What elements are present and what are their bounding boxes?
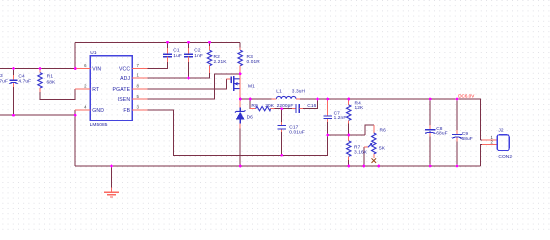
node C17-FB: [280, 154, 283, 157]
node R4-R7: [347, 134, 350, 137]
node gnd-symbol: [110, 165, 113, 168]
wire ground rail: [75, 165, 480, 167]
svg-text:2.21K: 2.21K: [214, 59, 228, 65]
svg-text:R6: R6: [380, 127, 387, 133]
svg-text:C2: C2: [194, 47, 201, 53]
wire C9 column: [456, 99, 458, 166]
wire R4 bottom: [348, 124, 350, 136]
wire R9 to C16: [275, 108, 296, 110]
svg-text:-68uF: -68uF: [435, 131, 448, 137]
node C8-gnd: [429, 165, 432, 168]
svg-text:VIN: VIN: [92, 66, 101, 72]
pin PGATE 8: [132, 88, 147, 90]
node C4-top: [12, 67, 15, 70]
op-amp U1 LM5085 box: [90, 56, 132, 121]
resistor R3: [238, 42, 260, 74]
capacitor C8: [425, 125, 448, 137]
wire riser to top rail: [74, 42, 76, 68]
wire switch node: [240, 98, 271, 100]
wire C2 to ADJ: [188, 62, 190, 78]
node C1-top: [166, 41, 169, 44]
node C8-top: [429, 98, 432, 101]
svg-text:4.7uF: 4.7uF: [18, 79, 31, 85]
svg-text:1nF: 1nF: [194, 53, 203, 59]
svg-text:12K: 12K: [355, 105, 365, 111]
wire C7 bottom: [327, 122, 329, 135]
potentiometer R6: [364, 125, 386, 158]
node C17-R9: [280, 107, 283, 110]
node C16-out: [316, 98, 319, 101]
svg-text:3.16K: 3.16K: [354, 149, 368, 155]
resistor R9: [250, 103, 275, 111]
node R3-M1: [239, 72, 242, 75]
svg-text:1.2nF: 1.2nF: [334, 115, 347, 121]
svg-text:CON2: CON2: [498, 154, 512, 160]
inductor L1: [272, 88, 306, 99]
node VIN-riser: [74, 67, 77, 70]
wire input rail: [0, 68, 75, 70]
wire R9 tap: [250, 99, 255, 109]
resistor R4: [347, 99, 365, 124]
svg-text:ISEN: ISEN: [118, 97, 131, 103]
node C4-bottom: [12, 114, 15, 117]
svg-text:4.7uF: 4.7uF: [0, 78, 8, 84]
wire divider node: [328, 134, 365, 136]
svg-text:5K: 5K: [379, 145, 386, 151]
svg-text:FB: FB: [123, 108, 130, 114]
wire hook to R6 top: [365, 125, 374, 135]
wire ISEN net: [148, 74, 241, 99]
wire CON2 pin1: [480, 139, 482, 141]
pin VCC 7: [132, 68, 147, 70]
svg-text:R1: R1: [47, 73, 54, 79]
node R1-top: [39, 67, 42, 70]
wire gnd symbol drop: [111, 166, 113, 188]
svg-text:0.01uF: 0.01uF: [289, 129, 305, 135]
svg-text:20K: 20K: [265, 103, 275, 109]
node R9-tap: [249, 98, 252, 101]
svg-text:U1: U1: [90, 50, 97, 56]
svg-text:R9: R9: [251, 103, 258, 109]
pin FB 3: [132, 109, 147, 111]
svg-text:3.3uH: 3.3uH: [292, 88, 306, 94]
pin RT 2: [75, 88, 90, 90]
wire VCC to C1: [148, 62, 168, 69]
pin GND 4: [75, 109, 90, 111]
ground symbol: [104, 188, 119, 198]
svg-text:ADJ: ADJ: [120, 76, 130, 82]
svg-text:L1: L1: [276, 88, 282, 94]
svg-text:1uF: 1uF: [173, 53, 182, 59]
capacitor C16: [277, 103, 317, 113]
svg-text:C1: C1: [173, 47, 180, 53]
capacitor C17: [277, 122, 304, 135]
node C2-ADJ: [187, 77, 190, 80]
capacitor C1: [163, 42, 182, 62]
svg-text:0.01R: 0.01R: [247, 59, 261, 65]
svg-text:DC6.0V: DC6.0V: [458, 93, 475, 98]
capacitor C9: [452, 130, 473, 142]
node stray-gnd: [377, 165, 380, 168]
svg-text:D6: D6: [247, 114, 254, 120]
pin ISEN 5: [132, 98, 147, 100]
wire C8 column: [429, 99, 431, 166]
wire top rail: [75, 41, 240, 43]
svg-text:LM5085: LM5085: [90, 122, 108, 128]
wire bottom-left rail: [0, 110, 75, 115]
wire R6 wiper to ground: [363, 147, 365, 166]
capacitor C4: [9, 74, 31, 87]
svg-text:J2: J2: [498, 127, 503, 133]
svg-text:68K: 68K: [47, 80, 57, 86]
node R2-top: [208, 41, 211, 44]
svg-text:VCC: VCC: [119, 66, 130, 72]
node C9-top: [456, 98, 459, 101]
pin ADJ 1: [132, 77, 147, 79]
svg-text:2200pF: 2200pF: [277, 103, 294, 109]
wire C17 bottom: [281, 132, 283, 155]
wire D6 anode to ground: [239, 129, 241, 167]
capacitor C7: [323, 99, 346, 122]
wire C16 right riser: [303, 99, 318, 109]
connector J2 CON2: [482, 127, 512, 160]
wire CON2 pin2 riser: [480, 144, 482, 166]
node R7-gnd: [347, 165, 350, 168]
svg-text:C3: C3: [0, 73, 3, 79]
node C2-top: [187, 41, 190, 44]
svg-text:-68uF: -68uF: [460, 136, 473, 142]
wire R7 bottom: [348, 160, 350, 166]
resistor R7: [347, 135, 368, 160]
pin VIN 6: [75, 68, 90, 70]
svg-text:PGATE: PGATE: [113, 87, 131, 93]
node C9-gnd: [456, 165, 459, 168]
node R4-top: [347, 98, 350, 101]
svg-text:C16: C16: [307, 103, 316, 109]
diode D6 (schottky): [235, 100, 253, 129]
wire FB net: [148, 110, 328, 155]
wire PGATE net: [148, 79, 227, 89]
resistor R2: [207, 42, 227, 73]
svg-text:RT: RT: [92, 87, 99, 93]
resistor R1: [38, 69, 56, 93]
transistor M1 (P-MOSFET): [226, 74, 255, 99]
node wiper-gnd: [362, 165, 365, 168]
svg-text:M1: M1: [248, 84, 255, 90]
wire output rail: [300, 99, 480, 140]
node C7-divider: [326, 134, 329, 137]
wire ADJ rail: [148, 73, 210, 78]
node D6-gnd: [239, 165, 242, 168]
wire C17 top: [281, 109, 283, 122]
wire RT net: [40, 89, 75, 100]
no-connect X on R6 bottom: [372, 158, 377, 163]
node GND-pin: [74, 114, 77, 117]
node C7-top: [326, 98, 329, 101]
wire gnd feed: [74, 115, 76, 166]
node switch: [239, 98, 242, 101]
wire C4 column: [13, 69, 15, 116]
capacitor C2: [184, 42, 203, 62]
svg-text:GND: GND: [92, 108, 104, 114]
